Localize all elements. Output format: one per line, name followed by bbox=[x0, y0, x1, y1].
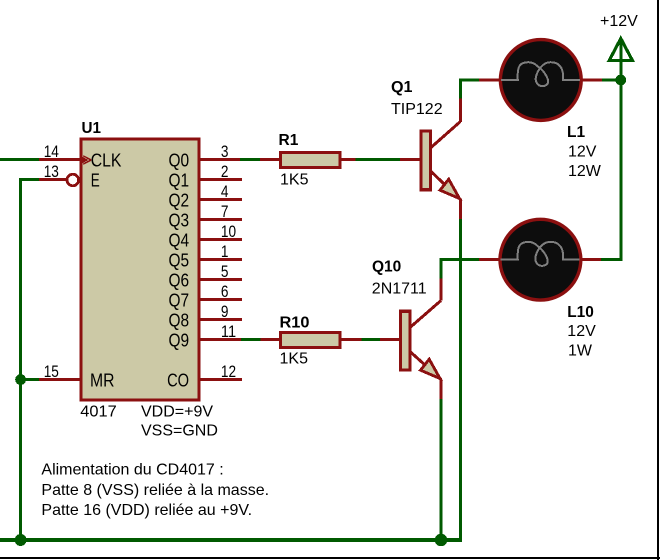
svg-text:Q2: Q2 bbox=[169, 190, 190, 210]
pin stub: Q1 collector red vertical bbox=[459, 99, 462, 123]
svg-text:MR: MR bbox=[90, 370, 115, 390]
svg-text:14: 14 bbox=[44, 142, 59, 161]
power symbol +12V arrow bbox=[609, 39, 632, 81]
svg-text:Q1: Q1 bbox=[169, 170, 190, 190]
svg-text:CO: CO bbox=[167, 370, 189, 390]
svg-text:R1: R1 bbox=[279, 132, 299, 149]
svg-text:TIP122: TIP122 bbox=[391, 101, 443, 118]
resistor R1 body bbox=[281, 152, 341, 167]
pin 3 stub to R1 bbox=[260, 158, 280, 161]
wire: vertical from pin13 down to bottom rail bbox=[19, 180, 22, 541]
wire: R1 to Q1 base green segment bbox=[356, 158, 400, 161]
svg-text:1K5: 1K5 bbox=[280, 172, 309, 189]
Q10 emitter diagonal bbox=[410, 352, 441, 380]
Q1 base bar bbox=[421, 131, 431, 190]
pin 15 stub of U1 bbox=[39, 378, 81, 381]
L1 filament bbox=[501, 62, 580, 86]
pin stub: Q1 emitter red vertical bbox=[459, 199, 462, 219]
L10 filament bbox=[501, 242, 580, 266]
svg-text:9: 9 bbox=[221, 302, 229, 321]
Q1 emitter arrow bbox=[440, 179, 460, 198]
node: junction dot at +12V bbox=[615, 75, 626, 86]
svg-text:12W: 12W bbox=[568, 163, 602, 180]
svg-text:2: 2 bbox=[221, 162, 229, 181]
pin 12 stub CO bbox=[200, 378, 242, 381]
IC U1 body (4017) bbox=[81, 139, 199, 400]
pin 6 stub Q7 bbox=[200, 298, 242, 301]
svg-text:6: 6 bbox=[221, 282, 229, 301]
wire: L1 right to +12V node bbox=[602, 79, 621, 82]
svg-text:12V: 12V bbox=[567, 323, 596, 340]
wire: E pin13 wire horizontal bbox=[19, 178, 39, 181]
svg-text:Alimentation du CD4017 :: Alimentation du CD4017 : bbox=[41, 462, 223, 479]
svg-text:Q4: Q4 bbox=[169, 230, 190, 250]
wire: CLK pin14 input wire from left edge bbox=[0, 158, 39, 161]
wire stub: red into Q1 base bbox=[400, 158, 420, 161]
pin 7 stub Q3 bbox=[200, 218, 242, 221]
wire stub: R10 right red bbox=[341, 338, 361, 341]
resistor R10 body bbox=[281, 333, 341, 348]
svg-text:Q6: Q6 bbox=[169, 270, 190, 290]
node: junction dot rail left bbox=[15, 534, 27, 546]
wire stub: R1 right red bbox=[341, 158, 356, 161]
wire: MR pin15 wire horizontal bbox=[21, 378, 39, 381]
svg-text:Patte 8 (VSS) reliée à la mass: Patte 8 (VSS) reliée à la masse. bbox=[41, 482, 269, 499]
clock chevron on pin 14 bbox=[83, 156, 91, 164]
pin 11 stub Q9 bbox=[200, 338, 241, 341]
svg-text:Patte 16 (VDD) reliée au +9V.: Patte 16 (VDD) reliée au +9V. bbox=[41, 502, 252, 519]
Q10 collector diagonal bbox=[410, 301, 441, 328]
pin 9 stub Q8 bbox=[200, 318, 242, 321]
wire: Q1 collector up and right to lamp L1 bbox=[460, 80, 479, 99]
clock input triangle on pin 14 bbox=[79, 155, 88, 165]
wire: +12V vertical down to L10 right bbox=[601, 61, 621, 260]
wire: R10 to Q10 base green segment bbox=[361, 338, 380, 341]
pin stub: Q10 collector red vertical bbox=[440, 279, 443, 301]
lamp L1 bbox=[500, 40, 581, 121]
svg-text:15: 15 bbox=[44, 362, 59, 381]
wire: Q1 emitter long vertical down to rail bbox=[459, 219, 462, 540]
pin stub: L10 left red bbox=[479, 258, 501, 261]
svg-text:+12V: +12V bbox=[600, 13, 638, 30]
wire: bottom ground rail bbox=[0, 538, 462, 542]
svg-text:R10: R10 bbox=[280, 314, 310, 331]
svg-text:4017: 4017 bbox=[80, 404, 117, 421]
transistor Q10 2N1711 bbox=[400, 301, 441, 380]
pin stub: L1 left red bbox=[479, 79, 501, 82]
svg-text:4: 4 bbox=[221, 182, 229, 201]
pin 2 stub Q1 bbox=[200, 178, 242, 181]
pin 4 stub Q2 bbox=[200, 198, 242, 201]
sheet border bottom bbox=[0, 557, 660, 559]
svg-text:7: 7 bbox=[221, 202, 229, 221]
svg-text:VSS=GND: VSS=GND bbox=[141, 423, 218, 440]
svg-text:1K5: 1K5 bbox=[280, 351, 309, 368]
svg-text:13: 13 bbox=[44, 162, 59, 181]
svg-text:12: 12 bbox=[221, 362, 236, 381]
pin stub: L1 right red bbox=[582, 79, 603, 82]
wire: Q10 emitter vertical down to rail bbox=[440, 399, 443, 540]
svg-text:2N1711: 2N1711 bbox=[372, 281, 427, 298]
svg-text:11: 11 bbox=[221, 322, 236, 341]
pin 3 stub Q0 bbox=[200, 158, 240, 161]
transistor Q1 TIP122 bbox=[421, 122, 461, 200]
svg-text:Q5: Q5 bbox=[169, 250, 190, 270]
svg-text:CLK: CLK bbox=[91, 150, 122, 170]
pin 5 stub Q6 bbox=[200, 278, 242, 281]
lamp L10 bbox=[500, 219, 581, 300]
wire stub: red into Q10 base bbox=[380, 338, 399, 341]
pin 13 stub of U1 (to bubble) bbox=[39, 178, 67, 181]
node: junction dot rail at Q10 emitter bbox=[435, 534, 447, 546]
wire: Q0 to R1 green segment bbox=[240, 158, 260, 161]
svg-text:1W: 1W bbox=[568, 343, 593, 360]
Q10 emitter arrow bbox=[421, 359, 441, 378]
svg-text:Q10: Q10 bbox=[372, 259, 401, 276]
svg-text:1: 1 bbox=[221, 242, 229, 261]
svg-text:Q9: Q9 bbox=[169, 330, 190, 350]
pin 14 stub of U1 bbox=[39, 158, 81, 161]
svg-text:Q8: Q8 bbox=[169, 310, 190, 330]
svg-text:VDD=+9V: VDD=+9V bbox=[141, 404, 213, 421]
pin 1 stub Q5 bbox=[200, 258, 242, 261]
svg-text:Q7: Q7 bbox=[169, 290, 190, 310]
pin 10 stub Q4 bbox=[200, 238, 242, 241]
Q1 collector diagonal bbox=[431, 122, 460, 148]
node: junction dot at pin13/MR vertical bbox=[15, 374, 26, 385]
svg-text:E: E bbox=[91, 170, 100, 190]
inverter bubble on pin 13 (E) bbox=[67, 174, 79, 186]
wire: Q9 to R10 green segment bbox=[241, 338, 261, 341]
svg-text:U1: U1 bbox=[82, 120, 102, 137]
wire: Q10 collector vertical and horizontal to lamp L10 bbox=[441, 260, 479, 279]
svg-text:12V: 12V bbox=[568, 144, 597, 161]
pin stub: Q10 emitter red vertical bbox=[440, 380, 443, 400]
Q10 base bar bbox=[400, 311, 410, 370]
svg-text:Q1: Q1 bbox=[391, 79, 413, 96]
sheet border right bbox=[657, 0, 659, 560]
svg-text:5: 5 bbox=[221, 262, 229, 281]
svg-text:3: 3 bbox=[221, 142, 229, 161]
pin 11 stub to R10 bbox=[261, 338, 281, 341]
svg-text:10: 10 bbox=[221, 222, 236, 241]
svg-text:Q0: Q0 bbox=[169, 150, 190, 170]
svg-text:L1: L1 bbox=[567, 124, 585, 141]
svg-text:L10: L10 bbox=[567, 304, 594, 321]
svg-text:Q3: Q3 bbox=[169, 210, 190, 230]
Q1 emitter diagonal bbox=[431, 172, 460, 200]
pin stub: L10 right red bbox=[581, 258, 601, 261]
